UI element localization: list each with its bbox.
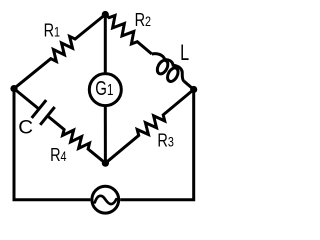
wire (104, 15, 107, 74)
wire (104, 106, 107, 164)
svg-text:C: C (18, 117, 33, 138)
svg-text:R2: R2 (135, 11, 152, 31)
resistor R1 (14, 15, 105, 89)
node B (190, 86, 197, 93)
node C (102, 160, 109, 167)
capacitor C (32, 100, 55, 125)
AC source (92, 186, 119, 213)
svg-text:R1: R1 (44, 21, 61, 41)
inductor L (145, 48, 189, 90)
svg-text:R3: R3 (157, 131, 174, 151)
wire (120, 90, 194, 200)
resistor R4 (48, 116, 106, 163)
node A (10, 85, 17, 92)
wire (14, 89, 39, 109)
resistor R3 (105, 90, 193, 164)
node T (102, 11, 109, 18)
wire (184, 81, 194, 89)
resistor R2 (105, 15, 152, 55)
svg-text:L: L (180, 40, 189, 65)
svg-text:G1: G1 (95, 77, 113, 100)
wire (14, 89, 90, 200)
svg-text:R4: R4 (50, 145, 67, 165)
galvanometer G1 (89, 74, 121, 106)
